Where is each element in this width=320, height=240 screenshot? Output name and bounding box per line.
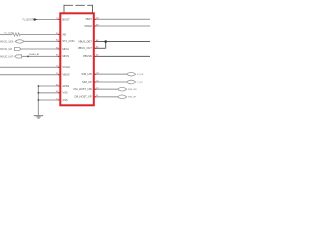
svg-text:SIM_UP: SIM_UP (82, 80, 92, 84)
svg-text:VBUS_DET: VBUS_DET (78, 39, 92, 43)
svg-text:VCHG: VCHG (62, 65, 70, 69)
svg-text:SIM_UW: SIM_UW (81, 72, 92, 76)
svg-text:VBUS_OUT: VBUS_OUT (78, 46, 92, 50)
svg-text:VBUS: VBUS (62, 73, 69, 77)
svg-text:P_UW: P_UW (137, 74, 144, 76)
svg-text:MICN: MICN (62, 54, 69, 58)
svg-text:VBAT: VBAT (85, 17, 92, 21)
svg-text:MXUC_UR: MXUC_UR (0, 48, 12, 51)
svg-text:VSS: VSS (62, 91, 67, 95)
svg-text:MICA: MICA (62, 47, 69, 51)
svg-text:SIM_UW: SIM_UW (128, 89, 138, 91)
svg-text:CM_HOST_UP: CM_HOST_UP (74, 95, 92, 99)
svg-text:TK_100R: TK_100R (4, 33, 13, 35)
svg-text:AB: AB (62, 32, 66, 36)
svg-text:T_UP: T_UP (137, 82, 143, 84)
svg-text:SIM_UP: SIM_UP (128, 97, 137, 99)
svg-text:VSS: VSS (62, 98, 67, 102)
svg-text:FLASH_AT: FLASH_AT (29, 53, 40, 56)
svg-text:STL_CON: STL_CON (62, 39, 74, 43)
svg-text:MXUC_UAT: MXUC_UAT (0, 55, 14, 58)
svg-text:VBUSN: VBUSN (83, 54, 92, 58)
svg-text:MXUC_UEA: MXUC_UEA (0, 40, 14, 43)
svg-text:TL_BOOT: TL_BOOT (22, 18, 33, 21)
svg-text:CM_HOST_UW: CM_HOST_UW (73, 87, 92, 91)
svg-text:BOOT: BOOT (62, 17, 70, 21)
svg-text:VRAM: VRAM (84, 24, 92, 28)
svg-text:AVSS: AVSS (62, 84, 69, 88)
